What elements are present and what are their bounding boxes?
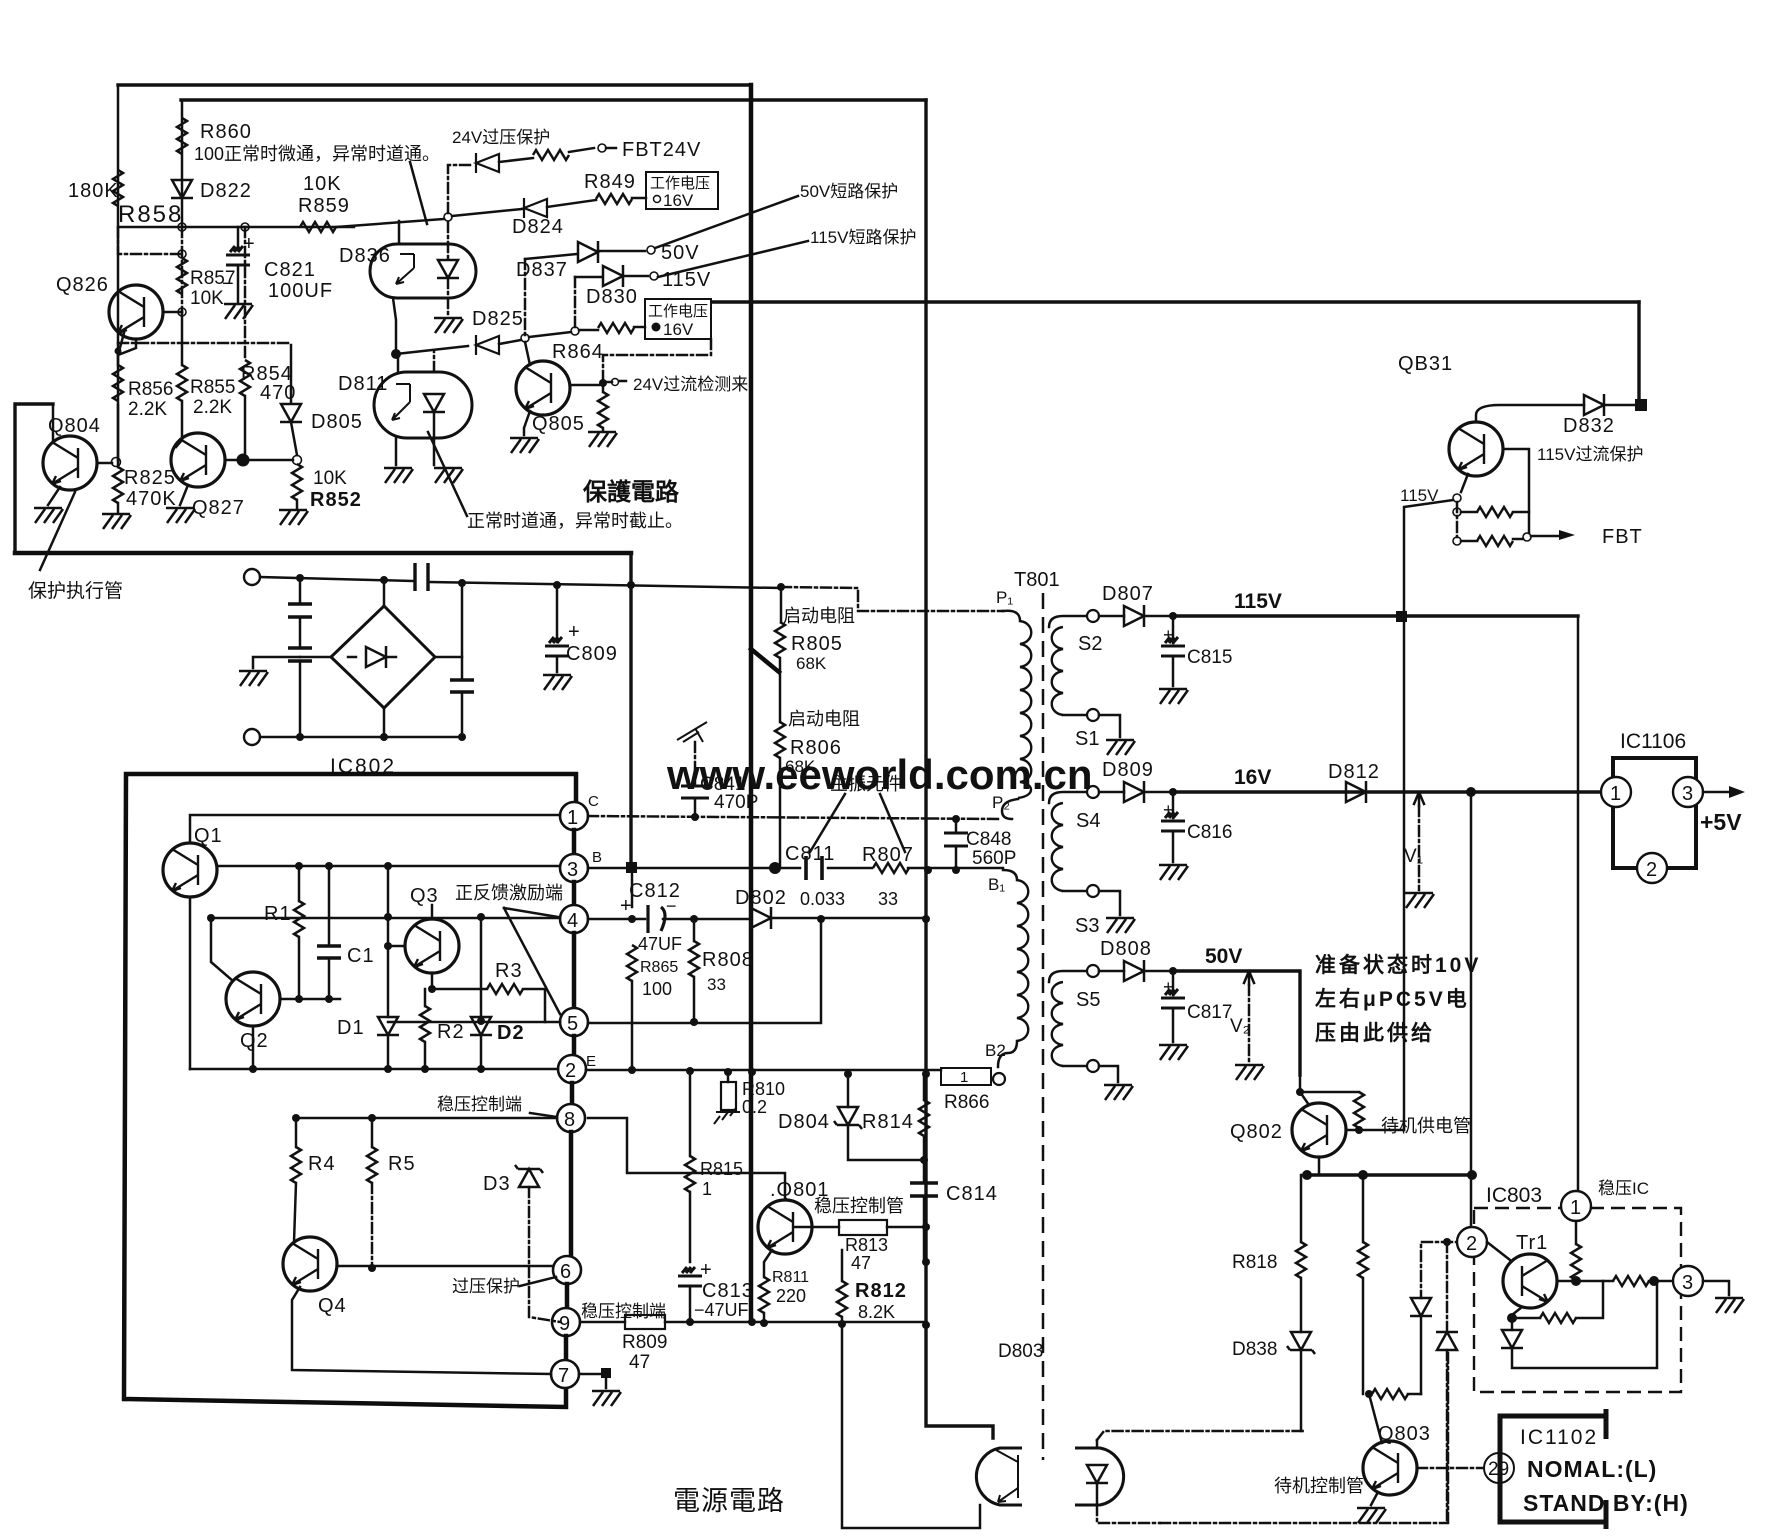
opto-coupler D836 bbox=[370, 244, 476, 298]
resistor 24V protection bbox=[533, 150, 569, 160]
wire Q3 base from x388 column bbox=[387, 866, 390, 1017]
svg-text:D811: D811 bbox=[338, 373, 388, 395]
svg-text:10K: 10K bbox=[190, 288, 224, 309]
svg-text:R818: R818 bbox=[1232, 1252, 1277, 1273]
wire outer protection box top edge bbox=[118, 83, 751, 86]
diode D830 bbox=[603, 265, 623, 287]
transistor Q804 bbox=[43, 436, 97, 490]
svg-text:IC1102: IC1102 bbox=[1520, 1426, 1598, 1449]
diode up column bbox=[1446, 1242, 1449, 1332]
wire Q2 collector bbox=[211, 918, 233, 981]
svg-text:S3: S3 bbox=[1075, 915, 1099, 937]
svg-text:2.2K: 2.2K bbox=[128, 399, 167, 420]
svg-text:主振元件: 主振元件 bbox=[830, 774, 902, 794]
wire pin2 E line outside bbox=[586, 1069, 941, 1072]
svg-text:Q1: Q1 bbox=[194, 825, 223, 847]
wire Q804 emitter to ground bbox=[48, 487, 60, 505]
diode D805 bbox=[290, 345, 293, 403]
wire Q831 emitter to 115V rail bbox=[1461, 474, 1468, 492]
svg-text:T801: T801 bbox=[1014, 569, 1060, 591]
IC1102 box bbox=[1500, 1409, 1606, 1529]
resistor R5 bbox=[371, 1118, 374, 1147]
resistor R855 2.2K bbox=[181, 312, 184, 365]
svg-text:IC803: IC803 bbox=[1486, 1184, 1542, 1207]
wire y343 cross link bbox=[118, 342, 291, 345]
svg-text:R857: R857 bbox=[190, 268, 235, 289]
wire Q805 base row bbox=[570, 384, 599, 387]
svg-text:R814: R814 bbox=[862, 1111, 914, 1133]
svg-text:FBT24V: FBT24V bbox=[622, 139, 701, 161]
svg-text:R805: R805 bbox=[791, 633, 843, 655]
measure arrow V2 bbox=[1244, 971, 1254, 985]
capacitor C814 bbox=[910, 1183, 938, 1196]
svg-text:Q803: Q803 bbox=[1378, 1423, 1431, 1445]
wire left rail x118 R858 column bbox=[117, 85, 120, 460]
svg-text:180K: 180K bbox=[68, 180, 119, 202]
svg-text:+: + bbox=[700, 1259, 712, 1281]
wire V1 link diagonal bbox=[751, 649, 779, 672]
transistor Q1 bbox=[163, 843, 217, 897]
node AC input bottom terminal bbox=[244, 729, 260, 745]
wire Q826 emitter down to rail bbox=[118, 333, 136, 365]
diode D838 bbox=[1300, 1278, 1303, 1332]
transformer T801 dashed core bbox=[1042, 593, 1045, 1460]
svg-text:C813: C813 bbox=[702, 1280, 754, 1302]
diode D832 bbox=[1476, 405, 1584, 422]
svg-text:R849: R849 bbox=[584, 171, 636, 193]
svg-text:7: 7 bbox=[558, 1365, 569, 1387]
svg-text:3: 3 bbox=[567, 859, 578, 881]
winding S5 bbox=[1049, 971, 1086, 982]
svg-text:+: + bbox=[1163, 977, 1174, 997]
svg-text:47: 47 bbox=[629, 1352, 650, 1373]
wire Tr1 base link bbox=[1487, 1242, 1510, 1260]
svg-text:E: E bbox=[586, 1053, 596, 1070]
svg-text:D802: D802 bbox=[735, 887, 787, 909]
transistor Q801 regulation control bbox=[758, 1200, 812, 1254]
svg-text:稳压控制管: 稳压控制管 bbox=[814, 1196, 904, 1216]
resistor R856 2.2K bbox=[113, 365, 123, 401]
capacitor C812 47UF bbox=[648, 905, 665, 933]
svg-text:2: 2 bbox=[1646, 859, 1657, 881]
svg-text:D830: D830 bbox=[586, 286, 638, 308]
svg-text:電源電路: 電源電路 bbox=[673, 1486, 785, 1516]
svg-text:8: 8 bbox=[564, 1109, 575, 1131]
measure arrow V1 bbox=[1414, 792, 1424, 806]
svg-text:3: 3 bbox=[1682, 1272, 1693, 1294]
svg-text:+: + bbox=[1163, 625, 1174, 645]
resistor R825 470K bbox=[117, 405, 120, 467]
svg-text:24V过流检测来: 24V过流检测来 bbox=[633, 375, 748, 394]
svg-text:V₂: V₂ bbox=[1230, 1016, 1250, 1037]
wire Q2 base row bbox=[280, 998, 340, 1001]
svg-text:S2: S2 bbox=[1078, 633, 1102, 655]
svg-text:D803: D803 bbox=[998, 1341, 1043, 1362]
resistor R859 10K bbox=[300, 222, 336, 232]
svg-text:R864: R864 bbox=[552, 341, 604, 363]
svg-text:33: 33 bbox=[707, 975, 726, 994]
wire +5V arrow bbox=[1703, 791, 1733, 794]
wire D811 collector lead up bbox=[397, 354, 400, 372]
resistor R860 bbox=[177, 118, 187, 154]
node B2 terminal bbox=[993, 1073, 1005, 1085]
svg-text:工作电压: 工作电压 bbox=[650, 175, 710, 192]
svg-text:+5V: +5V bbox=[1700, 809, 1742, 835]
capacitor AC series bbox=[415, 563, 428, 591]
wire Q804 collector to bracket bbox=[52, 404, 55, 440]
svg-text:115V: 115V bbox=[1400, 486, 1439, 505]
wire Q831 base column bbox=[1503, 449, 1529, 533]
wire Q803 base dash to 29 bbox=[1417, 1467, 1484, 1470]
pin 1 bbox=[560, 802, 588, 830]
svg-text:C821: C821 bbox=[264, 259, 316, 281]
wire pin3 B line bbox=[588, 867, 1003, 870]
capacitor C1 bbox=[328, 866, 331, 946]
svg-text:R2: R2 bbox=[437, 1021, 465, 1043]
svg-text:D812: D812 bbox=[1328, 761, 1380, 783]
svg-text:NOMAL:(L): NOMAL:(L) bbox=[1527, 1456, 1657, 1482]
svg-text:1: 1 bbox=[702, 1179, 712, 1199]
pin 7 bbox=[564, 1336, 569, 1360]
node D832 output square bbox=[1635, 399, 1647, 411]
wire Q803 emitter ground bbox=[1371, 1492, 1378, 1505]
wire Q802 base row bbox=[1346, 1129, 1404, 1132]
wire protection box bottom drop to B line bbox=[629, 553, 632, 866]
svg-text:R1: R1 bbox=[264, 903, 292, 925]
svg-text:C817: C817 bbox=[1187, 1002, 1232, 1023]
svg-text:R810: R810 bbox=[742, 1079, 785, 1099]
svg-text:100UF: 100UF bbox=[268, 280, 333, 302]
svg-text:C809: C809 bbox=[566, 643, 618, 665]
svg-text:C816: C816 bbox=[1187, 822, 1232, 843]
diode Tr1 lower bbox=[1511, 1318, 1514, 1330]
svg-text:R856: R856 bbox=[128, 379, 173, 400]
svg-text:10K: 10K bbox=[303, 173, 342, 195]
capacitor C821 100UF bbox=[237, 227, 240, 250]
winding S2 bbox=[1049, 616, 1086, 627]
svg-text:正常时道通，异常时截止。: 正常时道通，异常时截止。 bbox=[467, 511, 683, 531]
svg-text:2: 2 bbox=[565, 1060, 576, 1082]
transistor Q803 bbox=[1363, 1441, 1417, 1495]
svg-text:D807: D807 bbox=[1102, 583, 1154, 605]
wire 115V short line bbox=[575, 276, 602, 279]
capacitor C809 bbox=[556, 585, 559, 642]
wire 115V callout thick bbox=[658, 241, 808, 277]
resistor R849 bbox=[596, 194, 632, 204]
svg-text:C1: C1 bbox=[347, 945, 375, 967]
node 115V bbox=[650, 272, 658, 280]
resistor R3 bbox=[432, 988, 487, 991]
svg-text:R815: R815 bbox=[700, 1159, 743, 1179]
resistor R814 bbox=[923, 1074, 926, 1100]
svg-text:470P: 470P bbox=[714, 792, 758, 813]
svg-text:R860: R860 bbox=[200, 121, 252, 143]
wire 50V line bbox=[1169, 967, 1177, 975]
svg-text:9: 9 bbox=[559, 1313, 570, 1335]
svg-text:R865: R865 bbox=[640, 959, 678, 976]
wire pin4 row bbox=[211, 917, 560, 920]
resistor R809 47 box bbox=[580, 1321, 625, 1324]
wire Tr1 collector row bbox=[1557, 1280, 1613, 1283]
diode D825 bbox=[476, 335, 499, 355]
wire Q4 base row to pin6 bbox=[337, 1265, 553, 1268]
svg-text:50V: 50V bbox=[661, 242, 700, 264]
wire D803 LED dashed links bbox=[1097, 1431, 1303, 1523]
svg-text:R809: R809 bbox=[622, 1332, 667, 1353]
pin 4 bbox=[572, 882, 577, 905]
wire long vertical bus V2 bbox=[926, 100, 993, 1438]
svg-text:正反馈激励端: 正反馈激励端 bbox=[455, 883, 563, 903]
capacitor line filter lower bbox=[288, 648, 312, 661]
node terminal 29 bbox=[1484, 1453, 1514, 1483]
wire protection box bottom edge bbox=[15, 551, 631, 556]
wire vertical to D832 square bbox=[1637, 302, 1640, 403]
wire long horizontal line y302 bbox=[712, 300, 1639, 303]
transistor Q831 bbox=[1449, 422, 1503, 476]
LED inside D836 bbox=[437, 260, 459, 278]
svg-text:启动电阻: 启动电阻 bbox=[783, 606, 855, 626]
svg-text:2: 2 bbox=[1466, 1233, 1477, 1255]
svg-text:1: 1 bbox=[1570, 1197, 1581, 1219]
transistor Q4 bbox=[283, 1237, 337, 1291]
resistor R864 bbox=[579, 329, 598, 332]
wire Q827 collector row bbox=[225, 459, 293, 462]
opto-coupler D811 bbox=[374, 372, 472, 438]
capacitor C813 47UF bbox=[678, 1267, 702, 1286]
diode D822 bbox=[171, 180, 193, 198]
diode D802 bbox=[751, 907, 771, 929]
transistor Q805 bbox=[516, 361, 570, 415]
wire Q1 emitter bbox=[189, 897, 192, 1069]
svg-text:D1: D1 bbox=[337, 1017, 365, 1039]
wire C812 plus column bbox=[631, 867, 634, 907]
wire S1 ground bbox=[1099, 715, 1120, 737]
svg-text:D809: D809 bbox=[1102, 759, 1154, 781]
svg-text:115V过流保护: 115V过流保护 bbox=[1537, 445, 1643, 464]
svg-text:R855: R855 bbox=[190, 377, 235, 398]
wire startup line y582 bbox=[781, 587, 1003, 611]
svg-text:1: 1 bbox=[960, 1069, 968, 1086]
svg-text:待机控制管: 待机控制管 bbox=[1274, 1476, 1364, 1496]
wire 115V down feed to Q802 base row bbox=[1403, 617, 1406, 1130]
svg-text:100: 100 bbox=[642, 979, 672, 999]
wire R859 to opto D836 bbox=[336, 219, 444, 227]
capacitor line filter upper bbox=[299, 578, 302, 604]
transistor Q826 bbox=[109, 285, 163, 339]
resistor R810 0.2 bbox=[727, 1072, 730, 1082]
wire Q801 collector to pin8 row bbox=[588, 1118, 785, 1200]
capacitor C816 bbox=[1172, 792, 1175, 818]
wire 16V output line bbox=[1169, 788, 1177, 796]
resistor R865 100 bbox=[627, 945, 637, 981]
svg-text:QB31: QB31 bbox=[1398, 353, 1453, 375]
svg-text:R808: R808 bbox=[702, 949, 754, 971]
svg-text:B2: B2 bbox=[985, 1041, 1006, 1060]
resistor standby divider bbox=[1362, 1175, 1365, 1242]
svg-text:D822: D822 bbox=[200, 180, 252, 202]
svg-text:R866: R866 bbox=[944, 1092, 989, 1113]
wire Q801 emitter to R811 bbox=[764, 1250, 772, 1277]
resistor Q802 base bbox=[1354, 1092, 1364, 1128]
svg-text:D808: D808 bbox=[1100, 938, 1152, 960]
svg-text:560P: 560P bbox=[972, 848, 1016, 869]
wire Q804 base circle bbox=[97, 462, 112, 465]
svg-text:D3: D3 bbox=[483, 1173, 511, 1195]
svg-text:待机供电管: 待机供电管 bbox=[1381, 1116, 1471, 1136]
wire pin3 ground bbox=[1703, 1281, 1729, 1295]
svg-text:压由此供给: 压由此供给 bbox=[1315, 1021, 1435, 1045]
bridge rectifier IC802 bbox=[331, 606, 435, 708]
svg-text:10K: 10K bbox=[313, 468, 347, 489]
resistor IC803 output bbox=[1613, 1276, 1649, 1286]
svg-text:稳压控制端: 稳压控制端 bbox=[437, 1095, 522, 1114]
svg-text:Q4: Q4 bbox=[318, 1295, 347, 1317]
svg-text:47: 47 bbox=[851, 1253, 871, 1273]
capacitor C815 bbox=[1172, 616, 1175, 643]
resistor R818 bbox=[1300, 1175, 1303, 1242]
diode D837 bbox=[578, 241, 598, 263]
resistor R813 47 box bbox=[794, 1226, 839, 1229]
svg-text:B: B bbox=[592, 849, 602, 866]
wire FBT arrow bbox=[1523, 533, 1531, 541]
svg-text:0.2: 0.2 bbox=[742, 1097, 767, 1117]
wire 50V callout bbox=[655, 196, 798, 248]
svg-text:3: 3 bbox=[1682, 783, 1693, 805]
svg-text:S5: S5 bbox=[1076, 989, 1100, 1011]
wire Tr1 emitter node bbox=[1512, 1307, 1522, 1315]
oscillator hybrid box bbox=[124, 774, 576, 1407]
pin 5 bbox=[572, 933, 577, 1008]
capacitor C848 560P bbox=[955, 819, 958, 833]
svg-text:V₁: V₁ bbox=[1404, 846, 1423, 867]
box working voltage 16V lower bbox=[645, 299, 711, 339]
svg-text:D824: D824 bbox=[512, 216, 564, 238]
wire Q805 emitter bbox=[524, 411, 530, 435]
svg-text:B₁: B₁ bbox=[988, 875, 1005, 894]
node 50V bbox=[647, 246, 655, 254]
svg-text:Q804: Q804 bbox=[48, 415, 101, 437]
svg-text:+: + bbox=[1163, 800, 1174, 820]
wire R812 column down and bottom run bbox=[842, 1325, 980, 1528]
wire 50V short line bbox=[525, 254, 577, 259]
ground IC802 left bbox=[253, 657, 300, 668]
svg-text:过压保护: 过压保护 bbox=[452, 1277, 520, 1296]
pin 8 bbox=[570, 1083, 575, 1104]
wire R857 column bbox=[118, 227, 182, 312]
svg-text:2.2K: 2.2K bbox=[193, 397, 232, 418]
wire D825 line bbox=[396, 346, 468, 354]
svg-text:R806: R806 bbox=[790, 737, 842, 759]
diode D808 bbox=[1099, 970, 1124, 973]
wire Q3 emitter to R3 row bbox=[431, 973, 434, 989]
svg-text:D836: D836 bbox=[339, 245, 391, 267]
diode D3 bbox=[515, 1165, 543, 1187]
resistor R807 33 bbox=[873, 863, 909, 873]
svg-text:R3: R3 bbox=[495, 960, 523, 982]
wire R854 bottom to Q827 collector bbox=[244, 396, 247, 460]
svg-text:D2: D2 bbox=[497, 1022, 525, 1044]
node FBT24V terminal bbox=[598, 144, 606, 152]
resistor R866 fuse box bbox=[941, 1068, 991, 1085]
LED inside D811 bbox=[423, 394, 445, 412]
svg-text:保護電路: 保護電路 bbox=[582, 478, 680, 506]
svg-text:Q2: Q2 bbox=[240, 1030, 269, 1052]
svg-text:−: − bbox=[666, 896, 677, 916]
diode D812 bbox=[1346, 781, 1366, 803]
capacitor right filter bbox=[461, 583, 464, 680]
wire AC bottom line bbox=[260, 736, 462, 739]
capacitor C817 bbox=[1172, 971, 1175, 995]
winding B2 hook bbox=[998, 1041, 1017, 1067]
diode inside IC802 bbox=[366, 646, 386, 668]
svg-text:68K: 68K bbox=[785, 757, 816, 776]
svg-text:C814: C814 bbox=[946, 1183, 998, 1205]
svg-text:C848: C848 bbox=[966, 829, 1011, 850]
transistor Q2 bbox=[226, 972, 280, 1026]
resistor R811 220 bbox=[759, 1277, 769, 1313]
node IC803 pin2 bbox=[1457, 1227, 1487, 1257]
svg-text:Q3: Q3 bbox=[410, 885, 439, 907]
diode D824 bbox=[524, 198, 547, 218]
capacitor C811 0.033 bbox=[806, 856, 822, 880]
pin 6 bbox=[569, 1132, 574, 1256]
wire D836 emitter column to node bbox=[393, 298, 396, 354]
wire pin5 row bbox=[388, 1021, 560, 1024]
svg-text:P₁: P₁ bbox=[996, 588, 1013, 607]
wire Q2 emitter bbox=[252, 1026, 255, 1069]
diode D2 bbox=[480, 917, 483, 1017]
svg-text:Q805: Q805 bbox=[532, 413, 585, 435]
wire R809 node row bbox=[665, 1321, 926, 1324]
node IC803 pin1 bbox=[1561, 1191, 1591, 1221]
svg-text:工作电压: 工作电压 bbox=[648, 303, 708, 320]
svg-text:D825: D825 bbox=[472, 308, 524, 330]
wire AC top line bbox=[260, 577, 781, 588]
capacitor C841 470P bbox=[677, 722, 707, 742]
svg-text:115V: 115V bbox=[662, 269, 711, 291]
wire Q827 emitter ground bbox=[180, 485, 188, 505]
wire annotation callout to D836 bbox=[410, 162, 427, 224]
wire 16V feed down to IC803 pin2 bbox=[1470, 792, 1473, 1226]
wire S3 ground bbox=[1099, 891, 1120, 915]
diode D809 bbox=[1099, 791, 1124, 794]
svg-text:50V短路保护: 50V短路保护 bbox=[800, 182, 898, 201]
resistor R805 68K bbox=[780, 587, 783, 622]
svg-text:R852: R852 bbox=[310, 489, 362, 511]
svg-text:470K: 470K bbox=[126, 488, 177, 510]
resistor R857 10K bbox=[177, 258, 187, 294]
svg-text:8.2K: 8.2K bbox=[858, 1302, 895, 1322]
wire pin2 row bbox=[190, 1068, 558, 1071]
diode 24V line bbox=[476, 153, 499, 173]
svg-text:准备状态时10V: 准备状态时10V bbox=[1315, 953, 1481, 977]
wire pin4 line outside bbox=[588, 918, 926, 919]
transistor Q827 bbox=[171, 433, 225, 487]
wire 115V feed to IC803 pin1 bbox=[1577, 618, 1580, 1191]
svg-text:Q826: Q826 bbox=[56, 274, 109, 296]
box working voltage 16V upper bbox=[646, 172, 718, 209]
resistor Q805 base lower bbox=[602, 383, 605, 392]
wire pin1 C line bbox=[588, 816, 998, 819]
node 16V junction bbox=[1466, 787, 1476, 797]
svg-text:D805: D805 bbox=[311, 411, 363, 433]
svg-text:47UF: 47UF bbox=[638, 934, 682, 954]
svg-text:68K: 68K bbox=[796, 654, 827, 673]
diode D807 bbox=[1099, 615, 1124, 618]
svg-text:5: 5 bbox=[567, 1013, 578, 1035]
transistor Q3 bbox=[405, 919, 459, 973]
resistor R815 1 bbox=[689, 1071, 692, 1156]
